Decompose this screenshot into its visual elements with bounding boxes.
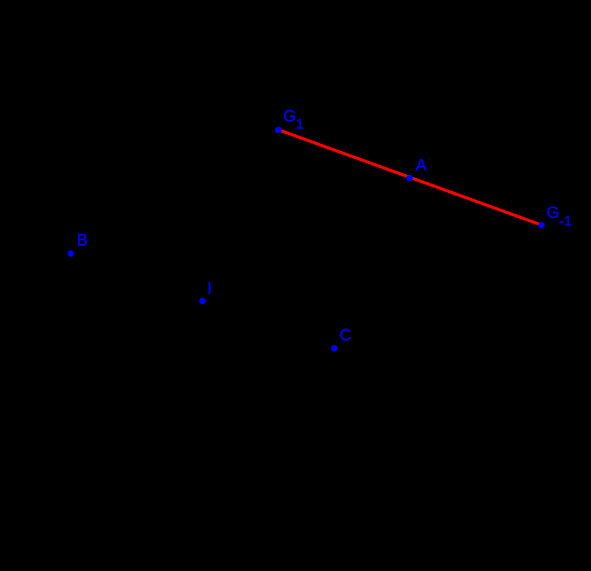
svg-text:C: C xyxy=(340,326,352,344)
point I xyxy=(199,298,206,305)
segment G1 to G-1 through A xyxy=(278,130,541,225)
point C xyxy=(331,345,338,352)
point B xyxy=(67,250,74,257)
point A xyxy=(406,175,413,182)
svg-text:A: A xyxy=(416,157,427,175)
point G1 xyxy=(275,127,282,134)
svg-text:I: I xyxy=(207,280,212,298)
point G-1 xyxy=(538,222,545,229)
svg-text:B: B xyxy=(77,232,88,250)
